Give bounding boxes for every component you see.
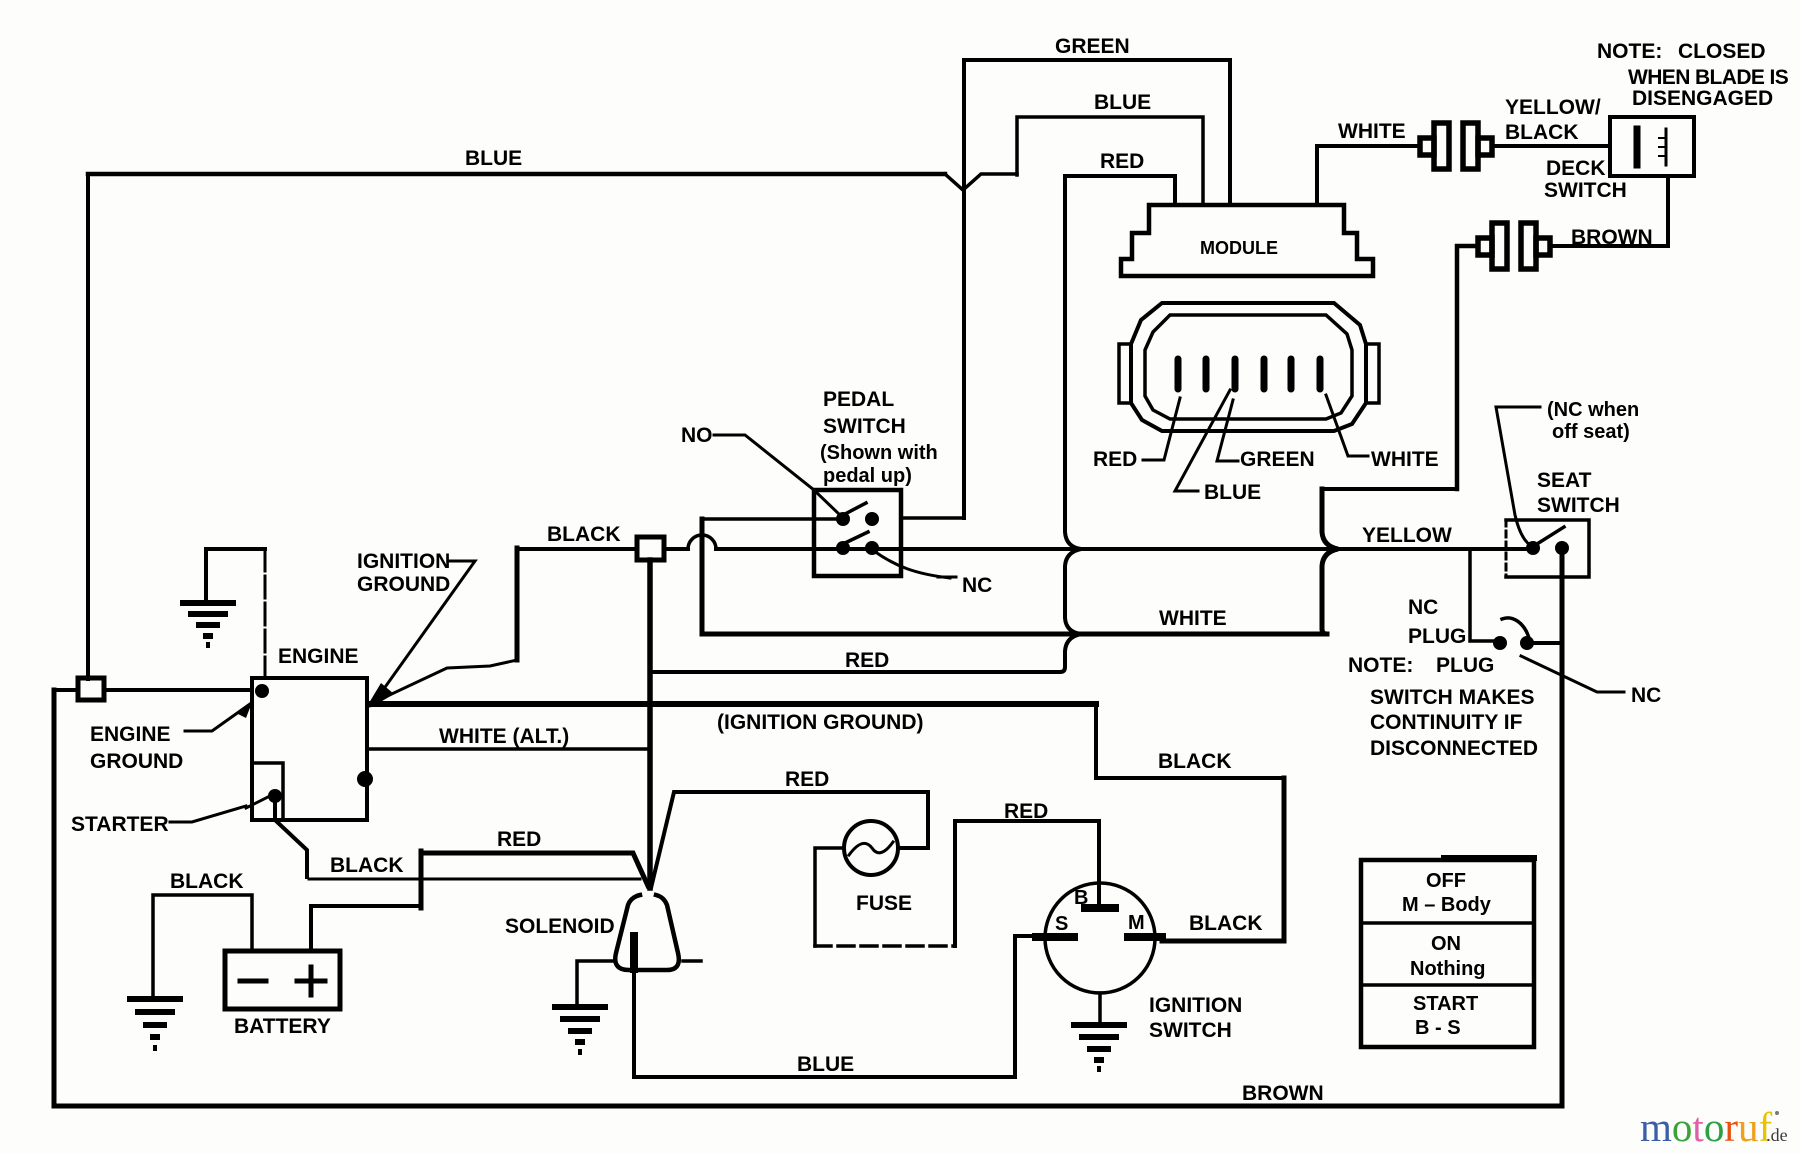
svg-text:DECK: DECK: [1546, 157, 1606, 180]
svg-text:GROUND: GROUND: [90, 750, 183, 773]
svg-text:GROUND: GROUND: [357, 573, 450, 596]
svg-text:SWITCH: SWITCH: [823, 415, 906, 438]
svg-text:IGNITION: IGNITION: [357, 550, 450, 573]
svg-text:Nothing: Nothing: [1410, 958, 1486, 980]
svg-text:YELLOW: YELLOW: [1362, 524, 1452, 547]
svg-text:motoruf.de: motoruf.de: [1640, 1104, 1788, 1150]
svg-text:(Shown with: (Shown with: [820, 442, 938, 464]
svg-text:WHEN BLADE IS: WHEN BLADE IS: [1628, 66, 1789, 89]
svg-text:START: START: [1413, 993, 1478, 1015]
svg-text:RED: RED: [1093, 448, 1137, 471]
svg-text:BLACK: BLACK: [1505, 121, 1579, 144]
svg-text:BLUE: BLUE: [1094, 91, 1151, 114]
svg-text:M – Body: M – Body: [1402, 894, 1492, 916]
svg-text:RED: RED: [497, 828, 541, 851]
svg-text:pedal up): pedal up): [823, 465, 912, 487]
svg-text:(NC when: (NC when: [1547, 399, 1639, 421]
svg-text:BLUE: BLUE: [1204, 481, 1261, 504]
svg-text:SWITCH MAKES: SWITCH MAKES: [1370, 686, 1535, 709]
svg-text:BROWN: BROWN: [1571, 226, 1653, 249]
svg-text:RED: RED: [845, 649, 889, 672]
svg-text:ENGINE: ENGINE: [278, 645, 359, 668]
svg-text:GREEN: GREEN: [1240, 448, 1315, 471]
svg-text:NC: NC: [962, 574, 992, 597]
svg-text:OFF: OFF: [1426, 870, 1466, 892]
svg-text:(IGNITION GROUND): (IGNITION GROUND): [717, 711, 923, 734]
svg-text:M: M: [1128, 912, 1145, 934]
svg-text:GREEN: GREEN: [1055, 35, 1130, 58]
svg-text:off seat): off seat): [1552, 421, 1630, 443]
svg-text:PLUG: PLUG: [1436, 654, 1494, 677]
svg-text:NO: NO: [681, 424, 713, 447]
svg-text:PEDAL: PEDAL: [823, 388, 894, 411]
svg-text:WHITE: WHITE: [1371, 448, 1439, 471]
svg-text:SEAT: SEAT: [1537, 469, 1592, 492]
svg-text:BLACK: BLACK: [547, 523, 621, 546]
svg-text:BROWN: BROWN: [1242, 1082, 1324, 1105]
svg-text:WHITE (ALT.): WHITE (ALT.): [439, 725, 569, 748]
svg-text:BLACK: BLACK: [1158, 750, 1232, 773]
svg-text:SOLENOID: SOLENOID: [505, 915, 615, 938]
svg-text:PLUG: PLUG: [1408, 625, 1466, 648]
svg-text:DISCONNECTED: DISCONNECTED: [1370, 737, 1538, 760]
svg-text:BLUE: BLUE: [465, 147, 522, 170]
svg-text:RED: RED: [785, 768, 829, 791]
svg-text:BATTERY: BATTERY: [234, 1015, 331, 1038]
svg-text:CONTINUITY IF: CONTINUITY IF: [1370, 711, 1523, 734]
svg-text:NC: NC: [1631, 684, 1661, 707]
svg-text:RED: RED: [1100, 150, 1144, 173]
svg-text:S: S: [1055, 913, 1068, 935]
svg-text:WHITE: WHITE: [1159, 607, 1227, 630]
svg-text:YELLOW/: YELLOW/: [1505, 96, 1601, 119]
svg-text:WHITE: WHITE: [1338, 120, 1406, 143]
svg-text:SWITCH: SWITCH: [1537, 494, 1620, 517]
svg-text:NOTE:: NOTE:: [1597, 40, 1662, 63]
svg-text:NC: NC: [1408, 596, 1438, 619]
svg-text:B - S: B - S: [1415, 1017, 1461, 1039]
svg-text:IGNITION: IGNITION: [1149, 994, 1242, 1017]
svg-text:DISENGAGED: DISENGAGED: [1632, 87, 1773, 110]
svg-text:SWITCH: SWITCH: [1544, 179, 1627, 202]
svg-text:STARTER: STARTER: [71, 813, 169, 836]
svg-text:SWITCH: SWITCH: [1149, 1019, 1232, 1042]
svg-text:CLOSED: CLOSED: [1678, 40, 1766, 63]
svg-text:FUSE: FUSE: [856, 892, 912, 915]
svg-text:BLACK: BLACK: [330, 854, 404, 877]
svg-text:BLACK: BLACK: [170, 870, 244, 893]
svg-text:ON: ON: [1431, 933, 1461, 955]
svg-text:ENGINE: ENGINE: [90, 723, 171, 746]
svg-text:BLUE: BLUE: [797, 1053, 854, 1076]
svg-text:RED: RED: [1004, 800, 1048, 823]
svg-text:NOTE:: NOTE:: [1348, 654, 1413, 677]
svg-text:BLACK: BLACK: [1189, 912, 1263, 935]
svg-text:B: B: [1074, 887, 1088, 909]
svg-text:MODULE: MODULE: [1200, 238, 1278, 258]
